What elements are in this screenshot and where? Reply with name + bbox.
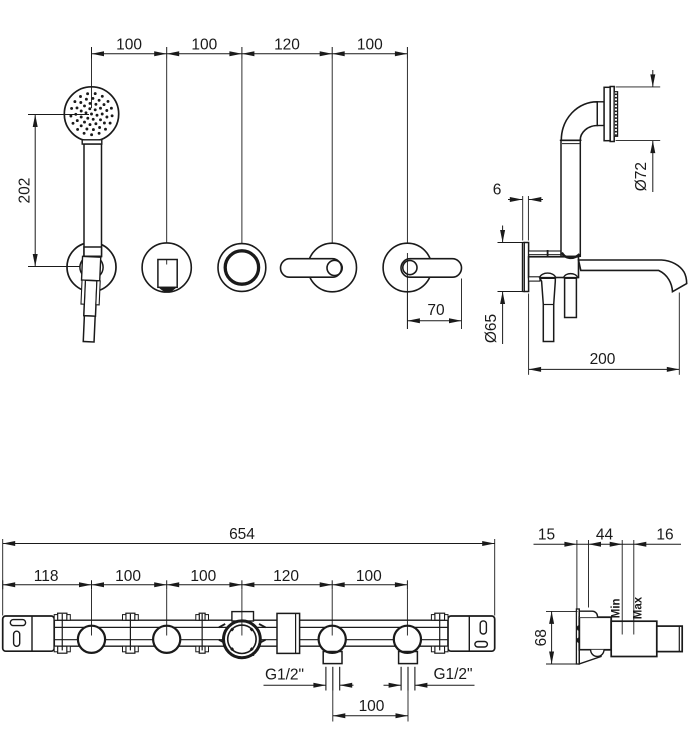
diverter housing block [277,613,300,653]
check valve cylinder [565,278,577,317]
spout housing chamfers [219,624,266,643]
box top clip [579,611,597,617]
svg-text:Min: Min [611,598,623,618]
diverter knob [158,260,177,288]
svg-text:Ø65: Ø65 [483,314,500,343]
holder stub pipe [529,251,561,255]
hand shower head (front view) [64,87,118,141]
Min Max wall depth lines [621,621,623,634]
svg-text:100: 100 [116,36,142,53]
inlet port pos2 [153,626,180,653]
svg-text:16: 16 [656,527,673,544]
dimension 70 (lever length) [461,279,463,330]
port centre lines [91,589,93,635]
svg-text:6: 6 [493,182,502,199]
box bottom bracket [579,650,601,664]
svg-text:100: 100 [115,568,141,585]
spout housing tabs [232,612,254,621]
svg-text:G1/2": G1/2" [433,666,472,683]
dimension Ø65 (plate diameter) [498,242,523,244]
svg-text:654: 654 [229,526,255,543]
svg-text:100: 100 [356,568,382,585]
spout escutcheon [218,244,266,292]
svg-text:120: 120 [274,36,300,53]
dimension row 15/44/16 [534,543,682,545]
mixer body (side view) [529,257,579,278]
valve port pos4 [319,626,346,653]
valve port pos5 [394,626,421,653]
hand shower head (side view) [597,102,604,126]
hand shower elbow [561,102,597,141]
inlet port pos1 [78,626,105,653]
dimension chain 118/100/100/120/100 [3,584,408,586]
pipe coupling near left plate [58,613,67,620]
rough-in box (side) [579,617,611,650]
lever handle pointing left [281,259,342,278]
svg-text:202: 202 [17,178,34,204]
shower holder escutcheon [67,243,116,292]
dimension Ø72 (head diameter) [616,86,661,88]
svg-text:100: 100 [190,568,216,585]
svg-text:44: 44 [596,527,614,544]
svg-text:100: 100 [359,698,385,715]
right fixing plate [448,616,495,651]
bottom stub pipe [529,277,540,281]
svg-text:120: 120 [273,568,299,585]
mounting bracket plate (side) [576,609,579,664]
protective sleeve (side) [611,621,657,656]
svg-text:100: 100 [357,36,383,53]
lever handle pointing right [401,259,462,278]
svg-text:Ø72: Ø72 [633,162,650,191]
handle escutcheon left [308,243,357,292]
shower holder cup and hose connector [79,256,101,342]
dimension 200 (spout reach) [528,294,530,375]
dimension 202 (shower head to holder) [28,114,91,116]
dimension chain 100/100/120/100 (trim spacing) [92,53,167,55]
pipe coupling near right plate [435,613,445,620]
svg-text:118: 118 [34,568,59,585]
handle escutcheon right [383,243,432,292]
spout outlet ring [225,251,258,284]
spout [579,260,687,292]
svg-text:68: 68 [533,629,550,646]
pipe coupling between pos1-pos2 [126,613,135,620]
cartridge domes [540,273,556,278]
dimension 6 (plate thickness) [522,196,524,241]
fixing screws [577,625,580,631]
G1/2 connection below pos5 [399,652,418,664]
spout outlet port (large) [224,621,261,658]
rough-in body tube [54,619,448,621]
G1/2 connection below pos4 [323,652,342,664]
svg-text:70: 70 [427,302,445,319]
left fixing plate [3,616,55,651]
diverter escutcheon [142,243,191,292]
dimension 68 (body height) [546,610,578,612]
hand shower handle tube (side) [561,140,580,256]
svg-text:100: 100 [191,36,217,53]
svg-text:15: 15 [538,527,555,544]
dimension 654 (overall length) [2,539,4,616]
pipe coupling between pos2-pos3 [199,613,205,620]
svg-text:G1/2": G1/2" [265,667,304,684]
svg-text:200: 200 [590,351,616,368]
dimension 100 (inlet spacing) [332,691,334,722]
connection pipe (side) [657,626,682,652]
svg-text:Max: Max [632,596,644,619]
hand shower handle (front) [82,140,102,144]
mixer cartridge lower (cone + tube) [540,278,555,341]
wall plate (side view) [522,243,524,292]
